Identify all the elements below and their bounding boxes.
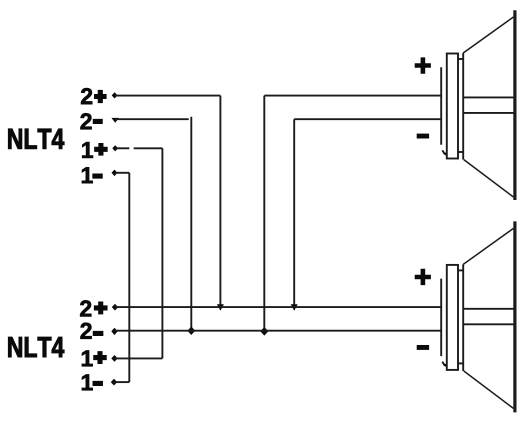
pin label J1 1+ bbox=[82, 142, 107, 158]
pin label J2 2+ bbox=[80, 300, 107, 316]
pin arrow J1 2- bbox=[111, 118, 119, 123]
LS1 plus sign bbox=[415, 57, 431, 73]
wire J1 pin2- horizontal bbox=[115, 118, 189, 120]
LS2 coil former line bbox=[462, 264, 464, 371]
wire speaker LS1 minus lead vertical down bbox=[293, 119, 295, 304]
LS1 upper strut bbox=[463, 96, 513, 98]
pin label J1 1- bbox=[82, 167, 102, 183]
junction arrow LS1 minus to 2+ bus bbox=[291, 304, 298, 311]
pin dot J2 2- bbox=[111, 328, 117, 335]
wire speaker LS1 plus lead horizontal bbox=[264, 95, 440, 97]
wire J2 pin1- horizontal bbox=[114, 381, 129, 383]
pin dot J1 2+ bbox=[112, 92, 118, 98]
junction dot LS1 plus to 2- bus bbox=[260, 327, 268, 336]
LS1 minus sign bbox=[417, 134, 429, 139]
LS1 cone upper edge bbox=[463, 17, 513, 53]
speaker LS2 bbox=[415, 221, 515, 412]
junction arrow 2+ bus bbox=[217, 304, 224, 311]
pin label J2 2- bbox=[81, 323, 104, 339]
wire J1 pin2+ vertical down bbox=[219, 96, 221, 305]
wire J1 pin1- vertical down bbox=[128, 173, 130, 382]
LS2 diaphragm bar bbox=[513, 221, 516, 412]
LS2 cone lower edge bbox=[464, 371, 514, 408]
LS2 terminal plate bbox=[440, 279, 442, 357]
wire J2 pin1+ horizontal bbox=[115, 357, 163, 359]
pin label J1 2- bbox=[81, 113, 103, 129]
wire bus 2+ row to speaker LS2 bbox=[115, 306, 441, 308]
pin dot J1 1- bbox=[112, 170, 118, 177]
pin dot J2 2+ bbox=[112, 304, 118, 311]
wire speaker LS1 plus lead vertical down bbox=[263, 96, 265, 332]
speaker LS1 bbox=[415, 10, 515, 200]
connector J1 label NLT4 bbox=[8, 129, 64, 149]
wire J1 pin2- vertical down bbox=[190, 117, 192, 331]
wire bus 2- row to speaker LS2 bbox=[115, 330, 441, 332]
LS1 top tick bbox=[458, 58, 463, 60]
LS1 magnet rectangle bbox=[447, 54, 458, 159]
LS2 top tick bbox=[458, 269, 463, 271]
LS1 diaphragm bar bbox=[513, 10, 516, 200]
LS1 lower strut bbox=[463, 112, 513, 114]
LS1 bottom tick bbox=[458, 151, 463, 153]
LS2 magnet rectangle bbox=[447, 265, 458, 370]
junction dot 2- bus bbox=[187, 327, 195, 336]
pin label J2 1- bbox=[82, 374, 103, 390]
connector J2 label NLT4 bbox=[8, 337, 64, 357]
pin label J2 1+ bbox=[82, 350, 106, 366]
LS2 bottom tick bbox=[458, 362, 463, 364]
pin dot J1 1+ bbox=[112, 145, 118, 151]
wire J1 pin2+ horizontal bbox=[115, 95, 221, 97]
LS2 cone upper edge bbox=[463, 228, 513, 264]
LS1 cone lower edge bbox=[464, 160, 514, 197]
LS1 small arrow mark bbox=[442, 150, 445, 154]
pin dot J2 1+ bbox=[111, 355, 117, 362]
LS1 terminal plate bbox=[440, 67, 442, 145]
wire J1 pin1+ horizontal segment b bbox=[134, 147, 163, 149]
LS2 plus sign bbox=[415, 269, 431, 285]
LS2 small arrow mark bbox=[442, 362, 445, 366]
LS2 upper strut bbox=[463, 308, 513, 310]
LS2 lower strut bbox=[463, 323, 513, 325]
wire J1 pin1+ vertical down bbox=[161, 148, 163, 358]
wire J1 pin1- horizontal bbox=[115, 172, 130, 174]
LS2 minus sign bbox=[417, 345, 429, 350]
wire speaker LS1 minus lead horizontal bbox=[294, 118, 440, 120]
wire J1 pin1+ horizontal segment a bbox=[115, 147, 129, 149]
LS1 coil former line bbox=[462, 53, 464, 160]
pin label J1 2+ bbox=[81, 88, 106, 104]
pin dot J2 1- bbox=[111, 379, 117, 386]
